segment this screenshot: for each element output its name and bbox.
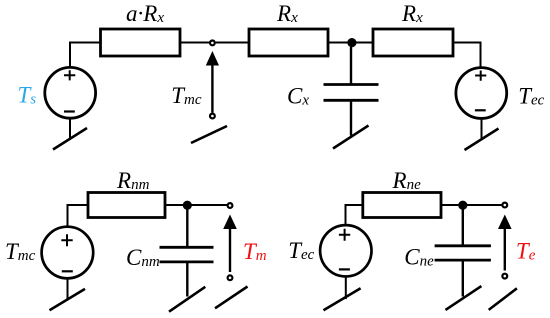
svg-text:Cne: Cne [404, 244, 434, 269]
svg-text:Ts: Ts [18, 83, 37, 108]
svg-text:Tm: Tm [243, 239, 267, 264]
svg-text:Tec: Tec [288, 238, 314, 263]
svg-text:Cnm: Cnm [126, 245, 160, 270]
svg-text:Tmc: Tmc [5, 239, 36, 264]
svg-text:Rne: Rne [392, 168, 422, 193]
svg-text:Tec: Tec [518, 83, 544, 108]
svg-text:Cx: Cx [287, 83, 309, 108]
svg-text:Rx: Rx [401, 1, 423, 26]
svg-text:Rnm: Rnm [116, 168, 150, 193]
svg-text:a·Rx: a·Rx [126, 1, 164, 26]
svg-text:Te: Te [516, 238, 536, 263]
svg-text:Tmc: Tmc [171, 83, 202, 108]
svg-text:Rx: Rx [276, 1, 298, 26]
